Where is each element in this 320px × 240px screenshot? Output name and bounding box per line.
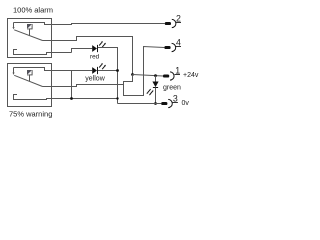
svg-text:yellow: yellow xyxy=(85,75,105,82)
wire +24v line to terminal 1 xyxy=(133,75,164,77)
S2 pivot stem with arrow xyxy=(13,68,15,76)
label red xyxy=(90,53,100,60)
LED D3 green stem top xyxy=(155,76,157,82)
pin label 3 xyxy=(172,94,178,104)
svg-text:3: 3 xyxy=(173,94,178,104)
S1 float stick xyxy=(29,29,31,36)
label 100% alarm xyxy=(13,5,53,14)
label 0v xyxy=(182,100,190,107)
wire to yellow LED xyxy=(72,70,93,72)
terminal 1 xyxy=(163,72,174,80)
junction green cathode xyxy=(154,102,157,105)
wire S2 lever to +24v hook xyxy=(43,85,124,87)
wire +24v hook to terminal 4 rail xyxy=(124,47,165,96)
junction lower wire to rail xyxy=(116,97,118,99)
junction green anode xyxy=(154,74,157,77)
D1 emission arrows xyxy=(99,41,106,47)
S2 lower contact xyxy=(14,95,118,100)
wire S1 lever to +24v node xyxy=(43,37,133,75)
wire yellow anode riser xyxy=(71,71,73,99)
junction yellow cathode xyxy=(116,69,119,72)
svg-text:100% alarm: 100% alarm xyxy=(13,5,53,14)
S2 float symbol xyxy=(28,71,33,75)
S1 top contact bar xyxy=(14,23,52,25)
S2 lever xyxy=(14,75,42,86)
LED D2 yellow xyxy=(92,67,97,74)
S2 top contact bar xyxy=(14,68,72,71)
svg-text:75% warning: 75% warning xyxy=(9,109,52,118)
pin label 4 xyxy=(176,37,182,47)
terminal 4 xyxy=(164,43,175,51)
label yellow xyxy=(85,75,105,82)
S1 lower contact xyxy=(14,50,72,55)
terminal 2 xyxy=(165,19,176,27)
terminal 3 xyxy=(161,99,172,107)
svg-text:green: green xyxy=(163,85,181,92)
junction +24v node xyxy=(131,73,134,76)
pin label 2 xyxy=(176,14,182,24)
wire S1 lower contact to red LED xyxy=(72,49,93,53)
S2 float stick xyxy=(29,75,31,81)
label +24v xyxy=(183,72,199,79)
switch box S2 (75% warning) xyxy=(8,64,52,107)
svg-text:red: red xyxy=(90,53,100,60)
D2 emission arrows xyxy=(99,63,106,69)
S1 lever xyxy=(14,30,42,41)
svg-text:4: 4 xyxy=(176,37,181,47)
label 75% warning xyxy=(9,109,52,118)
junction riser to lower wire xyxy=(70,97,73,100)
LED D3 green stem bottom xyxy=(155,88,157,104)
label green xyxy=(163,85,181,92)
S1 pivot stem with arrow xyxy=(13,23,15,30)
LED D3 green xyxy=(152,82,158,88)
svg-text:0v: 0v xyxy=(182,100,190,107)
svg-text:+24v: +24v xyxy=(183,72,199,79)
wire S1 top contact to terminal 2 xyxy=(52,24,165,25)
switch box S1 (100% alarm) xyxy=(8,19,52,58)
S1 float symbol xyxy=(28,25,33,29)
wire red LED cathode to 0v rail xyxy=(98,48,118,104)
LED D1 red xyxy=(92,45,97,52)
wire 0v to terminal 3 xyxy=(118,103,162,105)
wire yellow LED cathode to 0v rail xyxy=(98,70,118,72)
pin label 1 xyxy=(175,66,181,76)
D3 emission arrows xyxy=(147,89,154,95)
